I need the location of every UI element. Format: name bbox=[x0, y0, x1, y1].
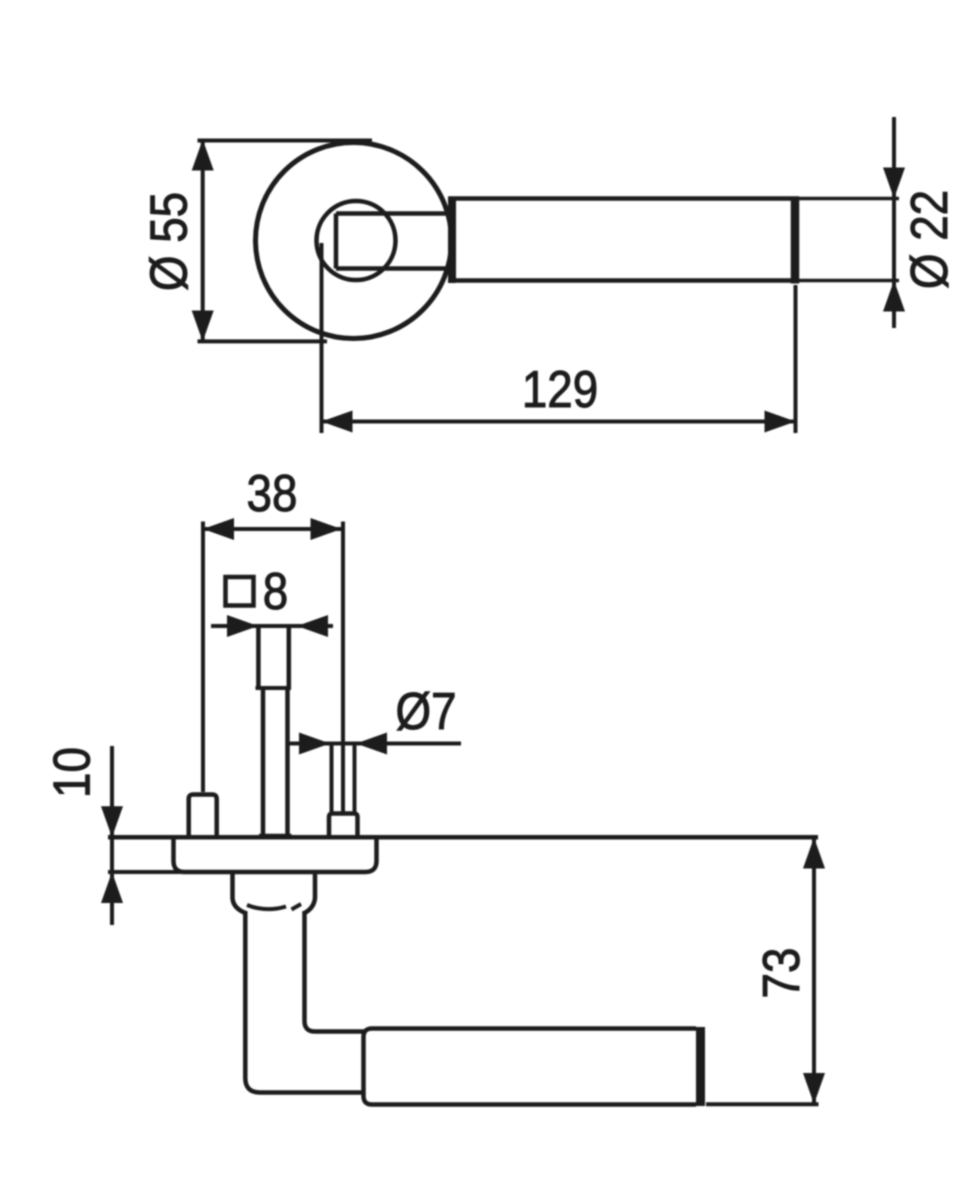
handle vertical arm (side view) bbox=[245, 911, 364, 1093]
grip outline (side view) bbox=[364, 1029, 697, 1105]
dimension 129 extension line right bbox=[794, 285, 798, 433]
dimension 38 arrow right bbox=[311, 518, 342, 540]
dimension 10 line bbox=[110, 746, 114, 925]
lever neck rectangle (front view) bbox=[336, 214, 452, 269]
dimension Ø22 line bbox=[892, 117, 896, 328]
dimension 129 arrow left bbox=[322, 411, 353, 433]
dimension Ø7 line bbox=[289, 742, 461, 746]
rose plate bottom extension line (10 dim) bbox=[108, 870, 186, 874]
lever grip end cap thick line bbox=[791, 197, 800, 284]
spindle step line bbox=[256, 686, 292, 690]
handle neck collar below plate bbox=[233, 874, 316, 913]
dimension Ø55 extension line bottom bbox=[198, 339, 328, 343]
dimension Ø22 arrow up to bottom line bbox=[883, 281, 905, 312]
square symbol of label 8 bbox=[226, 577, 254, 606]
lever junction thick line at rose edge bbox=[448, 197, 456, 283]
rose plate top line (side view, also 73 top extension) bbox=[108, 835, 818, 840]
grip end cap thick line (side view) bbox=[696, 1027, 705, 1106]
dimension 73 arrow down to grip bottom bbox=[803, 1073, 825, 1104]
dimension Ø55 arrow down bbox=[192, 311, 214, 342]
spindle lower section bbox=[259, 688, 292, 836]
dimension Ø22 arrow down to top line bbox=[883, 168, 905, 199]
lever grip top line (front view) bbox=[448, 196, 799, 201]
dimension Ø7 arrow left bbox=[299, 733, 330, 755]
svg-text:10: 10 bbox=[44, 747, 101, 798]
dimension Ø22 extension line top bbox=[799, 197, 899, 201]
screw pin Ø7 lines bbox=[332, 744, 355, 814]
svg-text:38: 38 bbox=[247, 465, 298, 522]
dimension Ø55 arrow up bbox=[192, 140, 214, 171]
collar edge arc bbox=[247, 905, 286, 909]
dimension Ø22 extension line bottom bbox=[799, 279, 899, 283]
lever grip bottom line (front view) bbox=[448, 278, 799, 283]
rose plate body outline bbox=[174, 838, 377, 872]
dimension 73 arrow up to plate top bbox=[803, 838, 825, 869]
svg-text:129: 129 bbox=[522, 361, 598, 418]
dimension 73 extension line bottom bbox=[706, 1102, 819, 1106]
dimension 38 arrow left bbox=[203, 518, 234, 540]
svg-text:8: 8 bbox=[263, 563, 288, 620]
rose inner neck circle bbox=[317, 201, 396, 280]
svg-text:Ø7: Ø7 bbox=[395, 683, 456, 740]
dimension 8 arrow right bbox=[297, 615, 328, 637]
rose outer circle (front view) bbox=[256, 143, 452, 339]
spindle upper square bar (side view) bbox=[258, 626, 288, 688]
dimension 38 line bbox=[203, 527, 342, 531]
left stud on rose plate bbox=[189, 795, 217, 837]
handle arm inner line bbox=[305, 911, 365, 1032]
dimension 73 line bbox=[812, 838, 816, 1105]
dimension 38 extension line left bbox=[201, 522, 205, 793]
dimension 129 line bbox=[322, 420, 796, 424]
dimension 129 extension line left bbox=[320, 243, 324, 433]
collar edge tick bbox=[292, 904, 302, 910]
svg-text:Ø 22: Ø 22 bbox=[901, 190, 958, 289]
dimension 8 arrow left bbox=[227, 615, 258, 637]
dimension 38 extension line right bbox=[341, 522, 345, 813]
dimension 8 line bbox=[211, 624, 333, 628]
dimension Ø55 extension line top bbox=[198, 139, 373, 143]
dimension 129 arrow right bbox=[765, 411, 796, 433]
svg-text:73: 73 bbox=[753, 948, 810, 999]
dimension Ø7 arrow right bbox=[356, 733, 387, 755]
dimension Ø55 line bbox=[201, 140, 205, 342]
svg-text:Ø 55: Ø 55 bbox=[141, 192, 198, 291]
dimension 10 arrow down to plate top bbox=[101, 806, 123, 837]
dimension 10 arrow up to plate bottom bbox=[101, 872, 123, 903]
screw pin collar box bbox=[329, 814, 358, 837]
